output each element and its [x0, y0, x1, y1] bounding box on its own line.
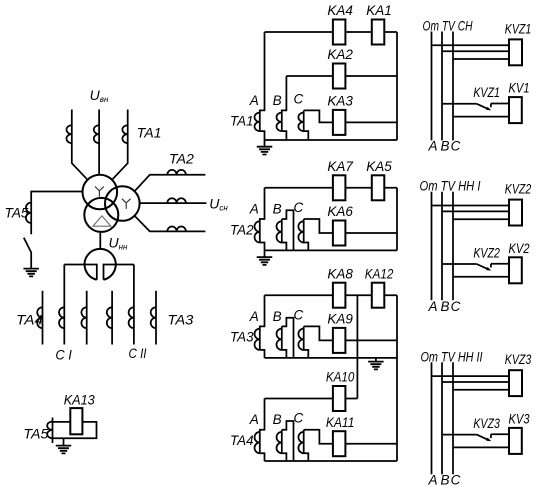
wire KV3 input 2 [453, 446, 509, 448]
svg-text:C: C [294, 307, 304, 322]
wire TA3-TA4 right vertical [396, 295, 398, 461]
svg-text:KV1: KV1 [509, 81, 530, 96]
svg-text:KVZ2: KVZ2 [505, 182, 532, 197]
ground TA3 bus [375, 358, 377, 362]
relay KVZ2 [509, 200, 522, 226]
svg-text:KA4: KA4 [327, 2, 353, 18]
wire phase A secondary (TA3) [260, 295, 265, 358]
relay KA8 [333, 283, 346, 308]
CT secondary A (TA3) [254, 329, 259, 350]
wire HV phase A [72, 110, 88, 180]
wire bottom bus (TA1) [265, 139, 398, 141]
wire KV1 input 2 [453, 116, 509, 118]
wire TA1 right vertical [396, 32, 398, 140]
wire bus C (KVZ1) [452, 32, 454, 141]
svg-text:C I: C I [55, 348, 72, 363]
wire bus B (KVZ2) [441, 192, 443, 301]
contact KVZ1 [477, 104, 491, 109]
wire KVZ2 input 3 [453, 218, 509, 220]
wire bus B (KVZ1) [441, 32, 443, 141]
svg-text:Om TV HH I: Om TV HH I [420, 178, 481, 194]
relay KA3 [333, 110, 346, 135]
wire TA3 row2 out [345, 339, 397, 341]
power transformer winding Y (HV) [83, 175, 118, 210]
svg-text:TA2: TA2 [169, 152, 195, 167]
wire bus A (KVZ3) [431, 362, 433, 474]
wire TA1 row2 [286, 75, 397, 77]
svg-text:TA2: TA2 [230, 222, 254, 237]
svg-text:KA2: KA2 [327, 46, 353, 62]
wire bus B (KVZ3) [441, 362, 443, 474]
current transformer feeder 1 [59, 307, 64, 328]
wire phase B secondary (TA3) [282, 318, 294, 358]
svg-text:KA9: KA9 [327, 311, 353, 327]
svg-text:KVZ1: KVZ1 [505, 21, 532, 36]
wire bottom bus (TA4) [265, 460, 398, 462]
wire feeder line 0 [42, 291, 44, 345]
wire phase C secondary (TA4) [304, 430, 333, 461]
svg-text:KA5: KA5 [366, 158, 392, 174]
wire KV3 input [491, 433, 509, 435]
svg-text:Om TV CH: Om TV CH [423, 18, 474, 34]
wire section I feeder [63, 265, 65, 345]
wire phase B secondary (TA1) [282, 76, 287, 140]
wire KV1 input [491, 103, 509, 105]
wire phase A secondary (TA4) [260, 399, 265, 462]
wire KVZ1 input 1 [432, 44, 510, 46]
svg-text:C: C [294, 200, 304, 215]
svg-text:C: C [451, 473, 461, 486]
wire junction to next block (TA3) [356, 295, 358, 398]
contact KVZ2 [477, 264, 491, 269]
CT secondary A (TA1) [254, 113, 259, 132]
relay KVZ1 [509, 39, 522, 65]
CT secondary C (TA3) [298, 329, 303, 350]
power transformer winding Y (MV) [105, 186, 140, 221]
relay KA1 [372, 20, 385, 45]
svg-text:KVZ2: KVZ2 [473, 245, 500, 260]
wire TA1 row3 out [345, 121, 397, 123]
relay KV3 [509, 428, 522, 454]
CT secondary C (TA1) [298, 113, 303, 132]
CT secondary A (TA4) [254, 432, 259, 453]
svg-text:TA3: TA3 [167, 313, 194, 328]
relay KA9 [333, 328, 346, 353]
wire bus A (KVZ1) [431, 32, 433, 141]
wire phase C secondary (TA1) [304, 110, 333, 140]
relay KV1 [509, 97, 522, 123]
wire TA2 row1 [265, 187, 398, 189]
wire KVZ2 input 1 [432, 205, 510, 207]
wire TA3 row1 [265, 294, 398, 296]
wire TA1 row1 [265, 31, 398, 33]
current transformer TA5 secondary [52, 418, 54, 444]
svg-text:KA6: KA6 [327, 203, 353, 219]
svg-text:B: B [273, 309, 282, 324]
CT secondary C (TA2) [298, 221, 303, 242]
relay KA11 [333, 431, 346, 456]
svg-text:A: A [427, 138, 437, 153]
svg-text:TA3: TA3 [230, 330, 254, 345]
wire bus C (KVZ3) [452, 362, 454, 474]
svg-text:B: B [273, 93, 282, 108]
wire TA2 row2 out [345, 232, 397, 234]
wire HV phase B [98, 110, 100, 175]
svg-text:KA3: KA3 [327, 93, 353, 109]
svg-text:KA8: KA8 [327, 265, 353, 281]
svg-text:KV2: KV2 [509, 241, 530, 256]
relay KA13 [70, 408, 82, 434]
switch blade (neutral earthing) [24, 238, 31, 269]
CT secondary B (TA2) [277, 221, 282, 242]
svg-text:A: A [249, 202, 259, 217]
svg-text:TA1: TA1 [137, 126, 162, 141]
svg-text:KVZ3: KVZ3 [505, 352, 532, 367]
wire KVZ1 input 3 [453, 58, 509, 60]
wire phase A secondary (TA1) [260, 32, 265, 140]
svg-text:KA13: KA13 [64, 393, 95, 408]
wire phase A secondary (TA2) [260, 188, 265, 251]
wire phase B secondary (TA2) [282, 210, 294, 250]
svg-text:KA1: KA1 [366, 2, 392, 18]
ground KA13 [63, 438, 65, 445]
relay KA2 [333, 64, 346, 89]
current transformer feeder 5 [151, 307, 156, 328]
CT secondary B (TA3) [277, 329, 282, 350]
relay KV2 [509, 257, 522, 283]
current transformer TA1 phase A [67, 125, 72, 143]
current transformer feeder 4 [129, 307, 134, 328]
CT secondary B (TA1) [277, 113, 282, 132]
svg-text:TA4: TA4 [16, 313, 43, 328]
wire KVZ3 input 2 [442, 381, 509, 383]
svg-text:KVZ3: KVZ3 [473, 416, 500, 431]
wire KVZ3 input 1 [432, 375, 510, 377]
wire MV phase C [135, 216, 206, 232]
relay KA5 [372, 175, 385, 200]
wire bus C (KVZ2) [452, 192, 454, 301]
current transformer TA1 phase C [122, 125, 127, 143]
current transformer feeder 3 [107, 307, 112, 328]
wire TA4 row1 [265, 398, 358, 400]
svg-text:C: C [294, 411, 304, 426]
CT secondary C (TA4) [298, 432, 303, 453]
wire TA4 row2 out [345, 443, 397, 445]
relay KA4 [333, 20, 346, 45]
svg-text:C: C [451, 138, 461, 153]
split-winding reactor [85, 249, 116, 280]
svg-text:TA4: TA4 [230, 433, 254, 448]
wire KVZ2 contact input [442, 263, 477, 265]
wire KVZ1 input 2 [442, 50, 509, 52]
ground TA2 phase A [264, 250, 266, 257]
wire KVZ1 contact input [442, 103, 477, 105]
svg-text:A: A [249, 412, 259, 427]
wire bus A (KVZ2) [431, 192, 433, 301]
CT secondary A (TA2) [254, 221, 259, 242]
relay KA7 [333, 175, 346, 200]
inductor TA2 phase B [167, 198, 186, 203]
wire KVZ3 input 3 [453, 389, 509, 391]
svg-text:KA11: KA11 [326, 414, 355, 430]
svg-text:KA7: KA7 [327, 158, 354, 174]
wire phase C secondary (TA3) [304, 326, 333, 358]
svg-text:TA1: TA1 [230, 114, 254, 129]
wire KVZ2 input 2 [442, 210, 509, 212]
svg-text:A: A [249, 93, 259, 108]
svg-text:TA5: TA5 [5, 205, 29, 220]
svg-text:C: C [451, 299, 461, 314]
ground neutral [23, 269, 39, 277]
svg-text:B: B [440, 138, 449, 153]
wire MV phase A [135, 175, 206, 192]
svg-text:A: A [249, 309, 259, 324]
current transformer TA5 (neutral) [26, 203, 31, 223]
wire KVZ3 contact input [442, 434, 477, 436]
current transformer feeder 0 [37, 307, 42, 328]
power transformer winding Delta (LV) [84, 198, 118, 232]
inductor TA2 phase A [167, 170, 186, 175]
svg-text:A: A [427, 299, 437, 314]
relay KA12 [372, 283, 385, 308]
wire bottom bus (TA3) [265, 357, 398, 359]
relay KVZ3 [509, 370, 522, 396]
wire HV neutral to TA5 [31, 192, 82, 235]
svg-text:B: B [273, 412, 282, 427]
svg-text:Om TV HH II: Om TV HH II [421, 348, 483, 364]
wire phase C secondary (TA2) [304, 219, 333, 250]
svg-text:C II: C II [129, 346, 147, 361]
wire bottom bus (TA2) [265, 249, 398, 251]
wire KA13 loop [53, 422, 97, 438]
current transformer feeder 2 [81, 307, 86, 328]
wire Delta to split winding [99, 232, 101, 250]
wire phase B secondary (TA4) [282, 421, 294, 461]
svg-text:KV3: KV3 [509, 411, 530, 426]
current transformer TA1 phase B [94, 125, 99, 143]
wire KV2 input 2 [453, 276, 509, 278]
svg-text:KA10: KA10 [326, 369, 355, 385]
wire KV2 input [491, 263, 509, 265]
svg-text:B: B [440, 473, 449, 486]
relay KA10 [333, 386, 346, 411]
svg-text:B: B [273, 202, 282, 217]
relay KA6 [333, 221, 346, 246]
svg-text:TA5: TA5 [23, 426, 49, 441]
svg-text:KVZ1: KVZ1 [473, 85, 500, 100]
wire feeder line 2 [111, 291, 113, 345]
wire HV phase C [112, 110, 128, 180]
svg-text:A: A [427, 473, 437, 486]
wire TA2 right vertical [396, 188, 398, 251]
wire section II feeder [133, 265, 135, 345]
wire feeder line 1 [86, 291, 88, 345]
svg-text:KA12: KA12 [365, 265, 394, 281]
svg-text:C: C [294, 91, 304, 106]
ground TA1 phase A [264, 140, 266, 147]
inductor TA2 phase C [167, 226, 186, 231]
contact KVZ3 [477, 434, 491, 439]
CT secondary B (TA4) [276, 432, 281, 453]
wire feeder line 3 [155, 291, 157, 345]
wire MV phase B [140, 202, 207, 204]
svg-text:B: B [440, 299, 449, 314]
